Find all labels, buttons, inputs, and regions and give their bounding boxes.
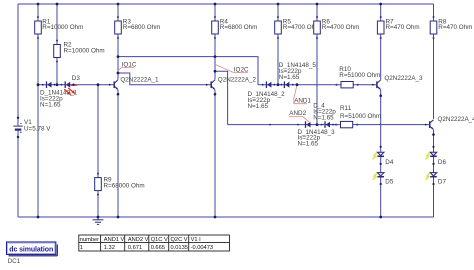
svg-text:V1 I: V1 I bbox=[191, 237, 202, 243]
resistor R6 bbox=[314, 16, 360, 39]
svg-text:D5: D5 bbox=[385, 179, 394, 186]
svg-text:1.32: 1.32 bbox=[104, 245, 115, 251]
diode D3 (red LED) bbox=[64, 75, 80, 95]
svg-text:R=470 Ohm: R=470 Ohm bbox=[438, 24, 472, 31]
battery V1 bbox=[13, 117, 51, 139]
resistor R7 bbox=[377, 16, 419, 39]
wire Q4 emitter LED column bbox=[433, 130, 435, 217]
LED D4 bbox=[373, 152, 394, 166]
resistor R1 bbox=[35, 16, 84, 39]
resistor R10 bbox=[336, 66, 381, 88]
svg-text:R=470 Ohm: R=470 Ohm bbox=[386, 24, 420, 31]
transistor Q3 Q2N2222A_3 bbox=[377, 75, 423, 90]
svg-text:number: number bbox=[80, 237, 99, 243]
resistor R3 bbox=[115, 16, 161, 39]
svg-text:0.0135: 0.0135 bbox=[171, 245, 188, 251]
node AND2 bbox=[289, 110, 311, 123]
svg-text:DC1: DC1 bbox=[8, 258, 21, 265]
svg-text:R=6800 Ohm: R=6800 Ohm bbox=[220, 24, 258, 31]
diode D_4 bbox=[313, 103, 336, 128]
resistor R2 bbox=[54, 40, 105, 63]
svg-text:R11: R11 bbox=[340, 105, 352, 112]
svg-text:AND2 V: AND2 V bbox=[128, 237, 149, 243]
wire Q2 emitter column bbox=[214, 90, 216, 217]
wire R8 to Q4 collector column bbox=[433, 4, 435, 119]
svg-text:D3: D3 bbox=[72, 75, 81, 82]
wire top rail bbox=[18, 3, 434, 5]
svg-text:Q2N2222A_2: Q2N2222A_2 bbox=[218, 77, 257, 84]
wire R7 to Q3 collector column bbox=[380, 4, 382, 80]
transistor Q1 Q2N2222A_1 bbox=[114, 77, 159, 90]
LED D7 bbox=[426, 173, 447, 186]
svg-text:R=10000 Ohm: R=10000 Ohm bbox=[64, 47, 105, 54]
svg-text:Q2N2222A_3: Q2N2222A_3 bbox=[384, 75, 423, 82]
svg-text:N=1.65: N=1.65 bbox=[40, 101, 61, 108]
ground bbox=[93, 217, 104, 224]
wire left rail with battery gap bbox=[17, 4, 19, 217]
svg-text:R=6800 Ohm: R=6800 Ohm bbox=[123, 24, 161, 31]
resistor R5 bbox=[275, 16, 321, 39]
diode D_1N4148_2 bbox=[248, 81, 286, 110]
transistor Q4 Q2N2222A_4 bbox=[430, 116, 474, 129]
svg-text:1: 1 bbox=[80, 245, 83, 251]
wire R6 column bbox=[316, 4, 318, 125]
wire R2 column bbox=[56, 4, 58, 85]
svg-text:Q2N2222A_1: Q2N2222A_1 bbox=[120, 77, 159, 84]
svg-text:D6: D6 bbox=[438, 159, 447, 166]
svg-text:-0.00473: -0.00473 bbox=[191, 245, 213, 251]
wire R3 to Q1 collector column bbox=[117, 4, 119, 80]
svg-text:R=51000 Ohm: R=51000 Ohm bbox=[340, 113, 381, 120]
svg-text:D7: D7 bbox=[438, 179, 447, 186]
LED D6 bbox=[426, 152, 447, 166]
svg-text:D4: D4 bbox=[385, 159, 394, 166]
diode D_1N4148_3 bbox=[298, 121, 336, 147]
resistor R8 bbox=[430, 16, 472, 39]
results table bbox=[79, 235, 230, 251]
svg-text:R=68000 Ohm: R=68000 Ohm bbox=[104, 182, 145, 189]
resistor R9 bbox=[95, 173, 145, 196]
dc simulation box bbox=[7, 242, 58, 265]
svg-text:N=1.65: N=1.65 bbox=[298, 141, 319, 148]
resistor R11 bbox=[335, 105, 381, 128]
svg-text:N=1.65: N=1.65 bbox=[313, 114, 334, 121]
svg-text:N=1.65: N=1.65 bbox=[279, 74, 300, 81]
node IQ2C bbox=[215, 64, 249, 73]
svg-text:dc simulation: dc simulation bbox=[9, 247, 53, 254]
wire Q1 collector to Q2 base bbox=[118, 73, 211, 85]
svg-text:R=10000 Ohm: R=10000 Ohm bbox=[42, 24, 83, 31]
node AND1 bbox=[294, 85, 312, 105]
wire R1 column bbox=[37, 4, 39, 217]
wire input diode row bbox=[38, 84, 114, 86]
wire AND1 row bbox=[258, 84, 377, 86]
wire R5 column bbox=[277, 4, 279, 85]
node IQ1C bbox=[118, 61, 137, 71]
svg-text:Q1C V: Q1C V bbox=[151, 237, 168, 243]
wire Q3 emitter LED column bbox=[380, 90, 382, 217]
wire Q1C tap row bbox=[118, 57, 258, 85]
diode D_1N4148_5 bbox=[279, 62, 317, 88]
svg-text:0.671: 0.671 bbox=[128, 245, 142, 251]
wire Q1 emitter column bbox=[117, 90, 119, 217]
LED D5 bbox=[373, 173, 394, 186]
wire bottom rail bbox=[18, 216, 434, 218]
svg-text:R=51000 Ohm: R=51000 Ohm bbox=[339, 72, 380, 79]
svg-text:AND1 V: AND1 V bbox=[104, 237, 125, 243]
wire R9 ground column bbox=[97, 85, 99, 217]
resistor R4 bbox=[212, 16, 258, 39]
wire AND2 row bbox=[228, 124, 430, 126]
transistor Q2 Q2N2222A_2 bbox=[211, 77, 256, 90]
svg-text:R=4700 Ohm: R=4700 Ohm bbox=[322, 24, 360, 31]
diode D_1N4148_1 bbox=[40, 81, 78, 108]
svg-text:N=1.65: N=1.65 bbox=[248, 103, 269, 110]
svg-text:Q2C V: Q2C V bbox=[171, 237, 188, 243]
svg-text:0.665: 0.665 bbox=[151, 245, 165, 251]
svg-text:U=5.78 V: U=5.78 V bbox=[24, 125, 51, 132]
wire R4 to Q2 collector column bbox=[214, 4, 216, 80]
svg-text:Q2N2222A_4: Q2N2222A_4 bbox=[438, 116, 474, 123]
wire Q2 collector step down bbox=[215, 71, 228, 124]
